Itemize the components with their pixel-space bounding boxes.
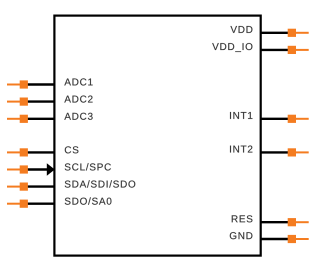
pin RES wire [260,221,289,223]
pin VDD pad [288,29,296,37]
pin RES label [232,215,253,222]
pin SDO/SA0 label [65,197,112,204]
pin INT2 wire [260,151,289,153]
pin SCL/SPC clock arrowhead [47,163,55,175]
pin VDD_IO pad [288,46,296,54]
pin ADC3 wire [26,118,55,120]
IC body U1 [54,16,260,256]
pin INT2 label [230,146,252,153]
pin VDD_IO label [212,43,252,52]
pin ADC1 label [64,78,92,85]
pin VDD_IO wire [260,49,289,51]
pin CS label [65,146,79,153]
pin ADC1 pad [20,80,28,88]
pin SCL/SPC wire [26,168,48,170]
pin GND wire [260,238,289,240]
pin GND pad [288,235,296,243]
pin ADC1 wire [26,83,55,85]
pin INT1 pad [288,115,296,123]
pin SDO/SA0 pad [20,200,28,208]
pin SDO/SA0 wire [26,202,55,204]
pin RES pad [288,218,296,226]
pin INT1 label [230,112,252,119]
pin VDD wire [260,32,289,34]
pin INT2 pad [288,148,296,156]
pin ADC3 label [64,113,92,120]
pin SCL/SPC pad [20,165,28,173]
pin GND label [230,232,253,239]
pin VDD label [230,26,252,33]
pin ADC2 pad [20,98,28,106]
pin SDA/SDI/SDO pad [20,183,28,191]
pin SDA/SDI/SDO wire [26,185,55,187]
pin SDA/SDI/SDO label [65,180,136,187]
pin ADC2 wire [26,100,55,102]
pin ADC2 label [64,96,92,103]
pin CS wire [26,151,55,153]
pin CS pad [20,148,28,156]
pin INT1 wire [260,118,289,120]
pin SCL/SPC label [65,163,111,170]
pin ADC3 pad [20,115,28,123]
